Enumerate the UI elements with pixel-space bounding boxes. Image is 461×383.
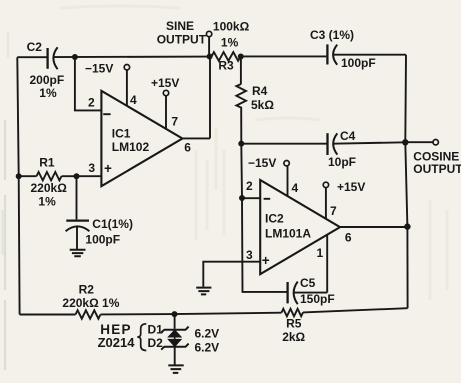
wire top-left horizontal to C2	[17, 56, 46, 58]
wire pin 7 IC1	[165, 96, 167, 129]
junction C2/pin2	[72, 54, 78, 60]
wire R4 to C4 node	[240, 109, 242, 144]
svg-text:+: +	[262, 253, 270, 268]
svg-text:OUTPUT: OUTPUT	[157, 33, 207, 47]
resistor R4	[236, 84, 246, 109]
junction C4 node	[238, 141, 244, 147]
resistor R5	[282, 309, 304, 317]
terminal +15V IC2	[323, 182, 328, 187]
ground below diodes	[168, 365, 183, 373]
svg-text:200pF: 200pF	[30, 73, 65, 87]
svg-text:10pF: 10pF	[328, 155, 356, 169]
svg-text:6: 6	[184, 141, 191, 155]
wire C5 right to pin 1	[294, 292, 328, 294]
wire cosine stub	[405, 141, 433, 143]
svg-text:C1(1%): C1(1%)	[92, 217, 133, 231]
svg-text:220kΩ: 220kΩ	[31, 181, 68, 195]
svg-text:OUTPUT: OUTPUT	[413, 162, 461, 176]
svg-text:−15V: −15V	[248, 156, 276, 170]
svg-text:C5: C5	[300, 276, 316, 290]
svg-text:C3 (1%): C3 (1%)	[310, 28, 354, 42]
svg-text:3: 3	[88, 161, 95, 175]
svg-text:R5: R5	[286, 317, 302, 331]
junction R1/C1 node	[74, 173, 80, 179]
wire pin 1 IC2	[326, 235, 328, 293]
svg-text:C4: C4	[340, 129, 356, 143]
diode D2 zener	[169, 340, 180, 346]
wire diode middle link	[174, 337, 176, 340]
wire left rail	[17, 57, 19, 314]
junction IC2 output node	[404, 223, 410, 229]
wire pin 2 IC2	[242, 197, 260, 199]
svg-text:+: +	[104, 161, 112, 176]
wire R1 row	[19, 175, 37, 177]
svg-text:SINE: SINE	[166, 19, 194, 33]
svg-text:4: 4	[130, 93, 137, 107]
terminal COSINE OUTPUT	[433, 140, 438, 145]
svg-text:7: 7	[171, 115, 178, 129]
capacitor C2	[46, 48, 48, 69]
capacitor C1	[66, 219, 89, 221]
wire pin 3 IC2 to ground	[203, 262, 260, 287]
wire IC1 output to sine node	[182, 57, 210, 139]
op-amp U1 IC1 triangle	[101, 91, 182, 186]
junction R3/R4 node	[238, 54, 244, 60]
svg-text:D2: D2	[148, 336, 164, 350]
svg-text:2: 2	[246, 179, 253, 193]
wire bottom rail left	[20, 314, 76, 316]
diode D1 zener	[161, 327, 188, 333]
svg-text:1%: 1%	[39, 86, 57, 100]
wire bottom rail middle	[101, 313, 282, 315]
svg-text:6: 6	[345, 230, 352, 244]
wire C1 branch	[76, 176, 78, 219]
svg-text:IC1: IC1	[112, 127, 131, 141]
terminal +15V IC1	[163, 90, 168, 95]
svg-text:4: 4	[292, 181, 299, 195]
svg-text:C2: C2	[27, 40, 43, 54]
capacitor C3	[326, 44, 328, 64]
svg-text:3: 3	[246, 248, 253, 262]
svg-text:100pF: 100pF	[341, 56, 376, 70]
minus sign IC1	[103, 113, 110, 115]
svg-text:Z0214: Z0214	[98, 335, 136, 350]
resistor R1	[37, 172, 62, 180]
svg-text:D1: D1	[148, 322, 164, 336]
junction R1 left rail	[16, 173, 22, 179]
svg-text:+15V: +15V	[151, 76, 179, 90]
wire R3 node down to R4	[240, 57, 242, 85]
svg-text:100pF: 100pF	[85, 232, 120, 246]
wire diode to ground	[174, 347, 176, 365]
wire pin2 node down and over to C5	[242, 198, 287, 292]
wire C4 right to cosine node	[333, 142, 405, 143]
capacitor C5	[286, 282, 288, 303]
wire C2 to sine node	[53, 56, 209, 59]
svg-text:6.2V: 6.2V	[195, 341, 220, 355]
terminal SINE OUTPUT	[206, 31, 211, 36]
svg-text:R2: R2	[79, 283, 95, 297]
svg-text:R3: R3	[218, 59, 234, 73]
wire pin 4 IC1	[126, 70, 128, 106]
svg-text:+15V: +15V	[337, 180, 365, 194]
wire C3 to right rail	[333, 54, 406, 56]
minus sign IC2	[264, 198, 271, 200]
terminal -15V IC2	[284, 161, 289, 166]
svg-text:R4: R4	[252, 84, 268, 98]
svg-text:5kΩ: 5kΩ	[251, 98, 274, 112]
wire bottom rail right	[303, 308, 408, 312]
wire right rail	[405, 55, 407, 309]
junction pin2 IC2 node	[239, 195, 245, 201]
svg-text:R1: R1	[39, 156, 55, 170]
brace HEP	[137, 324, 146, 351]
terminal -15V IC1	[124, 65, 129, 70]
wire sine terminal stub	[208, 37, 210, 57]
ground below C1	[70, 250, 86, 257]
svg-text:−15V: −15V	[85, 61, 113, 75]
svg-text:6.2V: 6.2V	[195, 327, 220, 341]
wire C4 node to pin2 node IC2	[240, 144, 243, 198]
svg-text:1%: 1%	[38, 195, 56, 209]
wire pin2 drop IC1	[75, 57, 102, 110]
ground at IC2 pin 3	[196, 288, 211, 295]
svg-text:1: 1	[317, 246, 324, 260]
capacitor C4	[326, 133, 328, 155]
wire C4 left	[241, 143, 326, 145]
resistor R3	[212, 52, 241, 61]
wire diode branch	[174, 314, 176, 329]
svg-text:LM101A: LM101A	[265, 226, 311, 240]
op-amp U2 IC2 triangle	[260, 180, 340, 274]
junction diode bottom rail	[172, 311, 178, 317]
wire IC2 output to right rail	[340, 226, 407, 228]
svg-text:IC2: IC2	[265, 212, 284, 226]
svg-text:LM102: LM102	[112, 140, 150, 154]
resistor R2	[76, 310, 101, 318]
svg-text:2kΩ: 2kΩ	[282, 330, 305, 344]
wire R3 to C3	[241, 55, 327, 57]
svg-text:100kΩ: 100kΩ	[213, 19, 250, 33]
junction cosine node	[402, 139, 408, 145]
svg-text:150pF: 150pF	[300, 292, 335, 306]
svg-text:7: 7	[330, 204, 337, 218]
svg-text:220kΩ 1%: 220kΩ 1%	[62, 296, 119, 310]
wire pin 4 IC2	[287, 166, 289, 196]
svg-text:1%: 1%	[221, 35, 239, 49]
svg-text:2: 2	[88, 96, 95, 110]
wire C1 to ground	[76, 227, 78, 249]
wire R1 to pin 3 IC1	[62, 175, 102, 177]
wire pin 7 IC2	[325, 188, 327, 219]
junction sine node	[207, 54, 213, 60]
